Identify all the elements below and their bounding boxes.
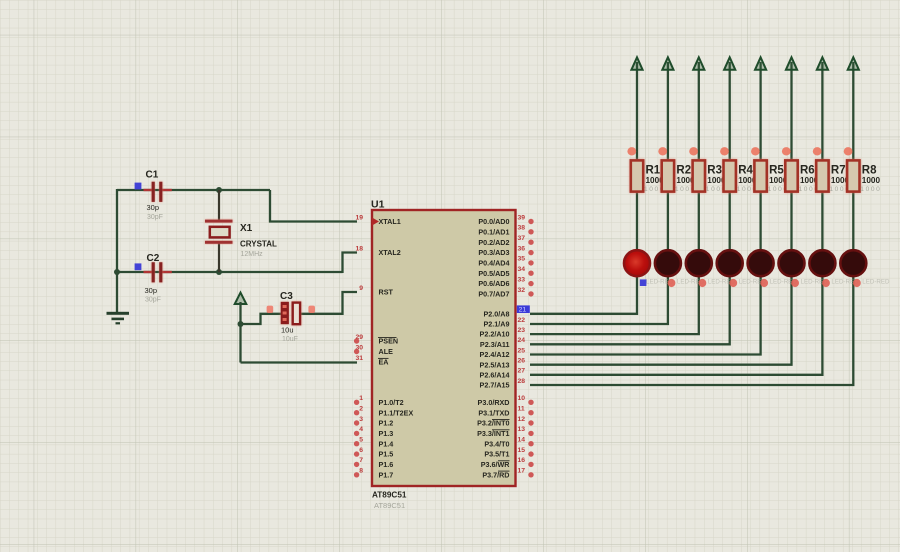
wire resistor to LED column 1 <box>636 192 638 252</box>
wire resistor to LED column 7 <box>821 192 823 252</box>
svg-text:5: 5 <box>359 437 363 444</box>
svg-text:P1.0/T2: P1.0/T2 <box>379 398 404 407</box>
wire resistor to LED column 6 <box>790 192 792 252</box>
svg-text:R7: R7 <box>831 165 846 177</box>
svg-text:P1.4: P1.4 <box>379 439 394 448</box>
wire P2.5 to LED column 6 <box>530 276 792 365</box>
power VCC arrow 1 <box>631 57 642 70</box>
svg-text:34: 34 <box>518 266 526 273</box>
svg-text:P0.7/AD7: P0.7/AD7 <box>478 290 509 299</box>
svg-text:3: 3 <box>359 416 363 423</box>
node junction reset <box>238 321 244 327</box>
svg-text:P1.3: P1.3 <box>379 429 394 438</box>
resistor R3 <box>693 160 727 193</box>
pin dot resistor R4 top <box>720 147 729 155</box>
svg-text:R3: R3 <box>707 165 722 177</box>
svg-text:P1.5: P1.5 <box>379 450 394 459</box>
ground <box>107 312 130 325</box>
svg-text:22: 22 <box>518 317 526 324</box>
capacitor C2 <box>144 253 172 304</box>
svg-text:4: 4 <box>359 426 363 433</box>
svg-text:P2.4/A12: P2.4/A12 <box>480 350 510 359</box>
crystal X1 <box>205 190 277 272</box>
svg-text:17: 17 <box>518 468 526 475</box>
pin P0.3/AD3 (36) <box>478 245 533 257</box>
pin P2.5/A13 (26) <box>480 358 533 370</box>
wire VCC rail column 3 <box>698 62 700 160</box>
pin dot resistor R3 top <box>689 147 698 155</box>
svg-text:P0.0/AD0: P0.0/AD0 <box>478 217 509 226</box>
resistor R2 <box>662 160 696 193</box>
svg-text:6: 6 <box>359 447 363 454</box>
pin P0.1/AD1 (38) <box>478 225 533 237</box>
pin dot LED D3 <box>699 279 707 287</box>
pin P2.6/A14 (27) <box>480 368 533 380</box>
wire resistor to LED column 4 <box>729 192 731 252</box>
svg-text:2: 2 <box>359 406 363 413</box>
LED D7 <box>809 250 835 276</box>
pin P2.7/A15 (28) <box>480 378 533 390</box>
svg-text:P0.3/AD3: P0.3/AD3 <box>478 248 509 257</box>
svg-text:R4: R4 <box>738 165 753 177</box>
pin dot resistor R5 top <box>751 147 760 155</box>
wire VCC rail column 6 <box>790 62 792 160</box>
svg-text:21: 21 <box>519 307 527 314</box>
svg-text:LED-RED: LED-RED <box>862 279 890 286</box>
pin ALE (30) <box>354 344 393 356</box>
pin dot resistor R1 top <box>627 147 636 155</box>
svg-text:P3.6/WR: P3.6/WR <box>481 460 511 469</box>
pin XTAL1 clock arrow <box>372 218 379 226</box>
svg-text:P0.2/AD2: P0.2/AD2 <box>478 238 509 247</box>
wire XTAL1 net (C1 top rail) <box>117 189 270 191</box>
svg-text:ALE: ALE <box>379 347 394 356</box>
svg-text:XTAL1: XTAL1 <box>379 217 401 226</box>
wire VCC rail column 2 <box>667 62 669 160</box>
pin XTAL1 (19) <box>355 214 400 226</box>
svg-text:X1: X1 <box>240 223 253 234</box>
svg-text:P3.7/RD: P3.7/RD <box>482 470 509 479</box>
svg-text:12: 12 <box>518 416 526 423</box>
svg-text:23: 23 <box>518 327 526 334</box>
pin P3.4/T0 (14) <box>484 437 533 449</box>
svg-text:P1.1/T2EX: P1.1/T2EX <box>379 408 414 417</box>
svg-text:13: 13 <box>518 426 526 433</box>
svg-text:P2.3/A11: P2.3/A11 <box>480 340 510 349</box>
pin dot LED D5 <box>760 279 768 287</box>
pin P3.6/WR (16) <box>481 457 534 469</box>
pin P1.5 (6) <box>354 447 393 459</box>
svg-text:26: 26 <box>518 358 526 365</box>
svg-text:P0.5/AD5: P0.5/AD5 <box>478 269 509 278</box>
pin dot resistor R7 top <box>813 147 822 155</box>
power VCC arrow 7 <box>817 57 828 70</box>
pin dot C3 left <box>267 306 274 313</box>
svg-text:38: 38 <box>518 225 526 232</box>
svg-text:U1: U1 <box>371 199 385 211</box>
wire reset branch to C3 <box>241 314 282 324</box>
svg-text:15: 15 <box>518 447 526 454</box>
pin dot LED D4 <box>729 279 737 287</box>
wire P2.1 to LED column 2 <box>530 276 668 324</box>
svg-text:P3.0/RXD: P3.0/RXD <box>478 398 510 407</box>
wire P2.4 to LED column 5 <box>530 276 761 355</box>
svg-text:P0.6/AD6: P0.6/AD6 <box>478 279 509 288</box>
svg-text:P3.5/T1: P3.5/T1 <box>484 450 509 459</box>
svg-text:8: 8 <box>359 468 363 475</box>
svg-text:30pF: 30pF <box>147 214 163 221</box>
svg-text:39: 39 <box>518 214 526 221</box>
svg-text:R1: R1 <box>646 165 661 177</box>
wire P2.6 to LED column 7 <box>530 276 822 375</box>
svg-text:P2.6/A14: P2.6/A14 <box>480 370 510 379</box>
svg-text:11: 11 <box>518 406 525 413</box>
resistor R6 <box>785 160 819 193</box>
power VCC arrow 5 <box>755 57 766 70</box>
pin P0.6/AD6 (33) <box>478 276 533 288</box>
svg-text:33: 33 <box>518 276 526 283</box>
resistor R8 <box>847 160 881 193</box>
wire XTAL2 net (C2 rail) <box>117 271 343 273</box>
svg-text:RST: RST <box>379 288 394 297</box>
svg-text:7: 7 <box>359 457 363 464</box>
svg-text:P1.6: P1.6 <box>379 460 394 469</box>
LED D4 <box>717 250 743 276</box>
svg-text:P0.4/AD4: P0.4/AD4 <box>478 259 509 268</box>
svg-text:1: 1 <box>359 395 363 402</box>
IC U1 AT89C51 body <box>371 199 516 511</box>
pin EA (31) <box>355 355 388 367</box>
pin P2.3/A11 (24) <box>480 337 533 349</box>
svg-text:P2.2/A10: P2.2/A10 <box>480 330 510 339</box>
pin P3.7/RD (17) <box>482 468 533 480</box>
pin P0.4/AD4 (35) <box>478 256 533 268</box>
pin P2.1/A9 (22) <box>484 317 533 329</box>
LED D3 <box>686 250 712 276</box>
svg-text:14: 14 <box>518 437 526 444</box>
pin dot resistor R6 top <box>782 147 791 155</box>
pin XTAL2 (18) <box>355 245 400 257</box>
pin P3.0/RXD (10) <box>478 395 534 407</box>
wire VCC rail column 1 <box>636 62 638 160</box>
pin P3.2/INT0 (12) <box>477 416 534 428</box>
svg-text:1000: 1000 <box>860 186 881 193</box>
pin dot resistor R2 top <box>658 147 667 155</box>
wire VCC rail column 8 <box>852 62 854 160</box>
pin dot LED D2 <box>668 279 676 287</box>
svg-text:CRYSTAL: CRYSTAL <box>240 240 277 249</box>
wire P2.0 to LED column 1 <box>530 276 637 314</box>
svg-text:9: 9 <box>359 285 363 292</box>
svg-text:P1.7: P1.7 <box>379 470 394 479</box>
wire XTAL2 riser to pin <box>343 253 358 274</box>
wire EA to VCC <box>241 361 358 363</box>
svg-text:30pF: 30pF <box>145 297 161 304</box>
pin P2.0/A8 (21) <box>484 305 533 318</box>
wire VCC rail column 5 <box>759 62 761 160</box>
power VCC arrow 2 <box>662 57 673 70</box>
LED D5 <box>748 250 774 276</box>
capacitor C1 <box>144 170 172 222</box>
node marker C1 (blue) <box>135 183 142 190</box>
svg-text:P3.4/T0: P3.4/T0 <box>484 439 509 448</box>
svg-text:19: 19 <box>355 214 363 221</box>
resistor R5 <box>754 160 788 193</box>
svg-text:31: 31 <box>355 355 363 362</box>
svg-text:C3: C3 <box>280 291 293 302</box>
pin P1.2 (3) <box>354 416 393 428</box>
wire P2.7 to LED column 8 <box>530 276 853 385</box>
resistor R7 <box>816 160 850 193</box>
svg-text:37: 37 <box>518 235 526 242</box>
power VCC arrow 3 <box>693 57 704 70</box>
power VCC arrow 6 <box>786 57 797 70</box>
svg-text:30p: 30p <box>147 203 160 212</box>
power VCC arrow 4 <box>724 57 735 70</box>
svg-text:25: 25 <box>518 347 526 354</box>
svg-text:16: 16 <box>518 457 526 464</box>
svg-text:P2.5/A13: P2.5/A13 <box>480 360 510 369</box>
svg-text:P3.3/INT1: P3.3/INT1 <box>477 429 509 438</box>
pin P0.0/AD0 (39) <box>478 214 533 226</box>
node junction crystal-top <box>216 187 222 193</box>
LED D8 <box>840 250 866 276</box>
power VCC arrow 8 <box>848 57 859 70</box>
svg-text:AT89C51: AT89C51 <box>374 501 405 510</box>
wire resistor to LED column 2 <box>667 192 669 252</box>
pin dot LED D8 <box>853 279 861 287</box>
svg-text:P1.2: P1.2 <box>379 419 394 428</box>
power VCC (reset) <box>235 293 247 304</box>
svg-text:10u: 10u <box>281 326 294 335</box>
svg-text:P3.1/TXD: P3.1/TXD <box>478 408 509 417</box>
svg-text:P2.0/A8: P2.0/A8 <box>484 309 510 318</box>
pin dot LED D7 <box>822 279 830 287</box>
pin P0.5/AD5 (34) <box>478 266 533 278</box>
svg-text:35: 35 <box>518 256 526 263</box>
pin P0.7/AD7 (32) <box>478 287 533 299</box>
svg-text:24: 24 <box>518 337 526 344</box>
svg-text:R6: R6 <box>800 165 815 177</box>
svg-text:36: 36 <box>518 245 526 252</box>
wire P2.2 to LED column 3 <box>530 276 699 334</box>
svg-text:C1: C1 <box>146 170 159 181</box>
node marker C2 (blue) <box>135 263 142 270</box>
svg-text:12MHz: 12MHz <box>241 251 264 258</box>
pin P0.2/AD2 (37) <box>478 235 533 247</box>
pin P1.4 (5) <box>354 437 393 449</box>
pin PSEN (29) <box>354 334 398 346</box>
wire reset vertical <box>239 302 241 363</box>
svg-text:28: 28 <box>518 378 526 385</box>
pin P1.3 (4) <box>354 426 393 438</box>
wire VCC rail column 7 <box>821 62 823 160</box>
pin P2.4/A12 (25) <box>480 347 533 359</box>
svg-text:18: 18 <box>355 245 363 252</box>
svg-text:R8: R8 <box>862 165 877 177</box>
svg-text:R5: R5 <box>769 165 784 177</box>
wire VCC rail column 4 <box>729 62 731 160</box>
pin P1.1/T2EX (2) <box>354 406 414 418</box>
pin P1.7 (8) <box>354 468 393 480</box>
svg-text:30p: 30p <box>145 286 158 295</box>
svg-text:XTAL2: XTAL2 <box>379 248 401 257</box>
svg-text:P0.1/AD1: P0.1/AD1 <box>478 227 509 236</box>
resistor R4 <box>724 160 758 193</box>
svg-text:P2.1/A9: P2.1/A9 <box>484 320 510 329</box>
pin P2.2/A10 (23) <box>480 327 533 339</box>
svg-text:1000: 1000 <box>862 176 881 185</box>
wire resistor to LED column 3 <box>698 192 700 252</box>
wire resistor to LED column 5 <box>759 192 761 252</box>
svg-text:10uF: 10uF <box>282 336 298 343</box>
svg-text:R2: R2 <box>676 165 691 177</box>
LED D2 <box>655 250 681 276</box>
pin P3.3/INT1 (13) <box>477 426 534 438</box>
resistor R1 <box>631 160 665 193</box>
wire C3 to RST riser <box>300 292 357 314</box>
svg-text:C2: C2 <box>147 253 160 264</box>
node marker LED D1 (blue) <box>640 279 647 286</box>
pin P3.1/TXD (11) <box>478 406 533 418</box>
node junction C2-left <box>114 269 120 275</box>
wire P2.3 to LED column 4 <box>530 276 730 344</box>
pin P1.0/T2 (1) <box>354 395 404 407</box>
wire XTAL1 drop to pin <box>270 190 357 222</box>
svg-text:10: 10 <box>518 395 526 402</box>
svg-text:EA: EA <box>379 358 389 367</box>
LED D6 <box>779 250 805 276</box>
svg-text:PSEN: PSEN <box>379 337 399 346</box>
pin P3.5/T1 (15) <box>484 447 533 459</box>
pin dot C3 right <box>308 306 315 313</box>
node junction crystal-bottom <box>216 269 222 275</box>
pin dot LED D6 <box>791 279 799 287</box>
pin RST (9) <box>356 285 394 297</box>
svg-text:32: 32 <box>518 287 526 294</box>
wire left vertical to ground <box>116 189 118 312</box>
svg-text:P2.7/A15: P2.7/A15 <box>480 381 510 390</box>
svg-text:P3.2/INT0: P3.2/INT0 <box>477 419 509 428</box>
wire resistor to LED column 8 <box>852 192 854 252</box>
pin dot resistor R8 top <box>844 147 853 155</box>
capacitor C3 <box>280 291 300 343</box>
svg-text:27: 27 <box>518 368 526 375</box>
pin P1.6 (7) <box>354 457 393 469</box>
svg-text:AT89C51: AT89C51 <box>372 491 407 500</box>
